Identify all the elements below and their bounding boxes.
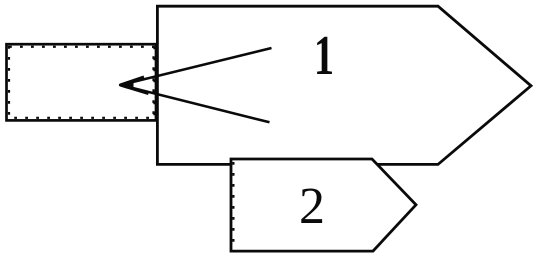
leader line lower xyxy=(122,85,270,122)
dashed ticks inside left edge of body 2 xyxy=(232,162,234,248)
body 2 (small pointed shape, overlapping) xyxy=(231,159,416,251)
svg-text:1: 1 xyxy=(314,25,334,87)
leader line upper xyxy=(122,48,272,85)
arrowhead pointing left xyxy=(121,77,149,94)
dashed rectangle (hidden part outline, left) xyxy=(7,44,157,120)
dashed ticks over left edge of body 1 (rect right edge) xyxy=(153,47,155,120)
body 1 (large pointed shape) xyxy=(157,6,531,164)
svg-text:2: 2 xyxy=(299,178,325,235)
